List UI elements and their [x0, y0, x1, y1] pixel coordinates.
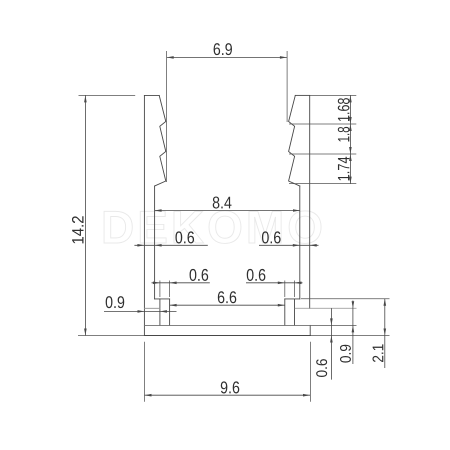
dim text 0.9 bottom-right	[340, 345, 351, 363]
profile: right floor shoulder	[285, 298, 300, 300]
ext line: 6.9 right (barb tips)	[286, 51, 288, 122]
ext line: barb notch 3	[289, 183, 356, 185]
dim line 0.9 left	[104, 310, 177, 312]
ext line: barb notch 1	[289, 123, 356, 125]
profile: bottom edge	[144, 335, 310, 337]
ext line: 14.2 bottom	[78, 335, 144, 337]
profile: left web left face	[159, 299, 161, 326]
dim line 6.6	[170, 304, 285, 306]
dim text 1.8	[338, 127, 350, 142]
profile: right web right face	[294, 299, 296, 326]
ext stub: left slot wall 2	[169, 281, 171, 298]
dim text 1.74	[338, 157, 349, 181]
dim line 6.9	[167, 56, 287, 58]
dim text 0.6 upper-left	[175, 231, 194, 243]
profile: right leg barbed inner edge (3 barbs)	[289, 95, 300, 186]
profile: right outer face lower	[309, 325, 311, 335]
dim line 9.6	[145, 394, 311, 396]
ext stub: left slot wall 1	[159, 281, 161, 298]
dim line 0.6 upper-left	[134, 244, 207, 246]
dim line 0.9 bottom-right	[352, 301, 354, 365]
dim text 1.68	[338, 98, 350, 121]
dim text 0.6 upper-right	[262, 231, 281, 243]
profile: left outer face	[143, 95, 145, 335]
dim text 8.4	[213, 197, 232, 209]
watermark DEKOMO	[104, 211, 321, 244]
ext line: channel floor right	[301, 298, 390, 300]
ext line: 14.2 top	[79, 94, 136, 96]
profile: left leg barbed inner edge (3 barbs)	[155, 95, 166, 186]
ext line: barb notch 2	[289, 153, 356, 155]
profile: left leg top edge	[144, 94, 159, 96]
ext line: bottom plate top right	[310, 324, 356, 326]
dim text 9.6	[221, 381, 240, 393]
profile: bottom plate top / channel floor ledge	[144, 324, 310, 326]
profile: right wall inner face	[299, 186, 301, 299]
dim text 6.6	[218, 291, 236, 303]
dim text 2.1	[372, 344, 383, 362]
dim line 0.6 bottom-right	[330, 308, 332, 379]
dim line 0.6 lower-left	[152, 282, 210, 284]
ext stub: right slot wall 1	[284, 281, 286, 298]
dim text 0.9 left	[106, 296, 125, 308]
dim text 0.6 lower-left	[190, 269, 209, 281]
ext line: 6.9 left (barb tips)	[166, 51, 168, 182]
dim text 6.9	[214, 43, 232, 55]
ext stub: right slot wall 2	[294, 281, 296, 298]
dim text 0.6 lower-right	[247, 269, 266, 281]
profile: left web right face	[169, 299, 171, 326]
dim text 0.6 bottom-right	[316, 359, 327, 377]
dim line 0.6 upper-right	[259, 244, 319, 246]
profile: left wall inner face	[154, 186, 156, 299]
profile: left chamber top line	[144, 307, 160, 309]
profile+ext line: right chamber top	[295, 307, 357, 309]
dim line 0.6 lower-right	[246, 282, 303, 284]
ext line: 9.6 right	[310, 342, 312, 402]
ext line: right top edge	[310, 94, 356, 96]
profile: right leg top edge	[295, 94, 309, 96]
dim line 8.4	[155, 210, 300, 212]
dim text 14.2	[72, 216, 84, 243]
ext line: bottom edge right	[311, 335, 390, 337]
dim line 14.2	[84, 95, 86, 335]
dim line 1.68/1.8/1.74	[349, 95, 351, 183]
ext line: 9.6 left	[144, 342, 146, 402]
profile: right outer face upper	[309, 95, 311, 308]
profile: right web left face	[284, 299, 286, 326]
dim line 2.1	[384, 299, 386, 368]
profile: left floor shoulder	[155, 298, 170, 300]
